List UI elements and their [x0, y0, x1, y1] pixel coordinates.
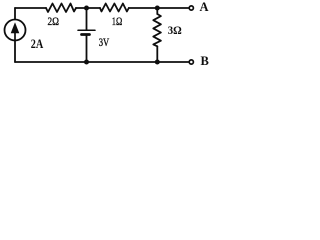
wire top rail middle segment (R1 to R2 through node at battery)	[76, 7, 100, 9]
wire 3-ohm branch bottom stub	[156, 46, 158, 62]
terminal A open circle	[189, 6, 193, 10]
svg-text:B: B	[201, 54, 209, 68]
battery V1 long plate (positive)	[78, 29, 95, 31]
terminal B open circle	[189, 60, 193, 64]
svg-text:2Ω: 2Ω	[48, 14, 60, 28]
current source I1 circle	[5, 20, 26, 41]
wire battery branch bottom	[86, 35, 88, 62]
wire left branch bottom (source to rail)	[14, 41, 16, 62]
svg-text:3Ω: 3Ω	[168, 23, 182, 37]
wire left branch top (rail to source)	[14, 8, 16, 19]
node junction dot top rail at 3-ohm branch	[155, 6, 160, 11]
svg-text:3V: 3V	[99, 37, 110, 49]
wire bottom rail	[15, 61, 189, 63]
svg-text:1Ω: 1Ω	[112, 14, 123, 28]
current source I1 arrow head	[11, 22, 20, 33]
node junction dot bottom rail at 3-ohm branch	[155, 60, 160, 65]
wire 3-ohm branch top stub	[156, 8, 158, 14]
wire top rail right segment (R2 to terminal A)	[129, 7, 189, 9]
current source I1 arrow shaft	[14, 32, 16, 40]
svg-text:A: A	[200, 0, 209, 14]
node junction dot top rail at battery branch	[84, 6, 89, 11]
resistor R3 3-ohm vertical zigzag	[153, 14, 161, 46]
node junction dot bottom rail at battery branch	[84, 60, 89, 65]
wire battery branch top	[86, 8, 88, 30]
battery V1 short plate (negative)	[82, 33, 90, 36]
resistor R2 1-ohm zigzag	[100, 4, 129, 12]
resistor R1 2-ohm zigzag	[46, 4, 76, 13]
wire top rail left segment (source to R1)	[15, 7, 46, 9]
svg-text:2A: 2A	[31, 37, 44, 51]
